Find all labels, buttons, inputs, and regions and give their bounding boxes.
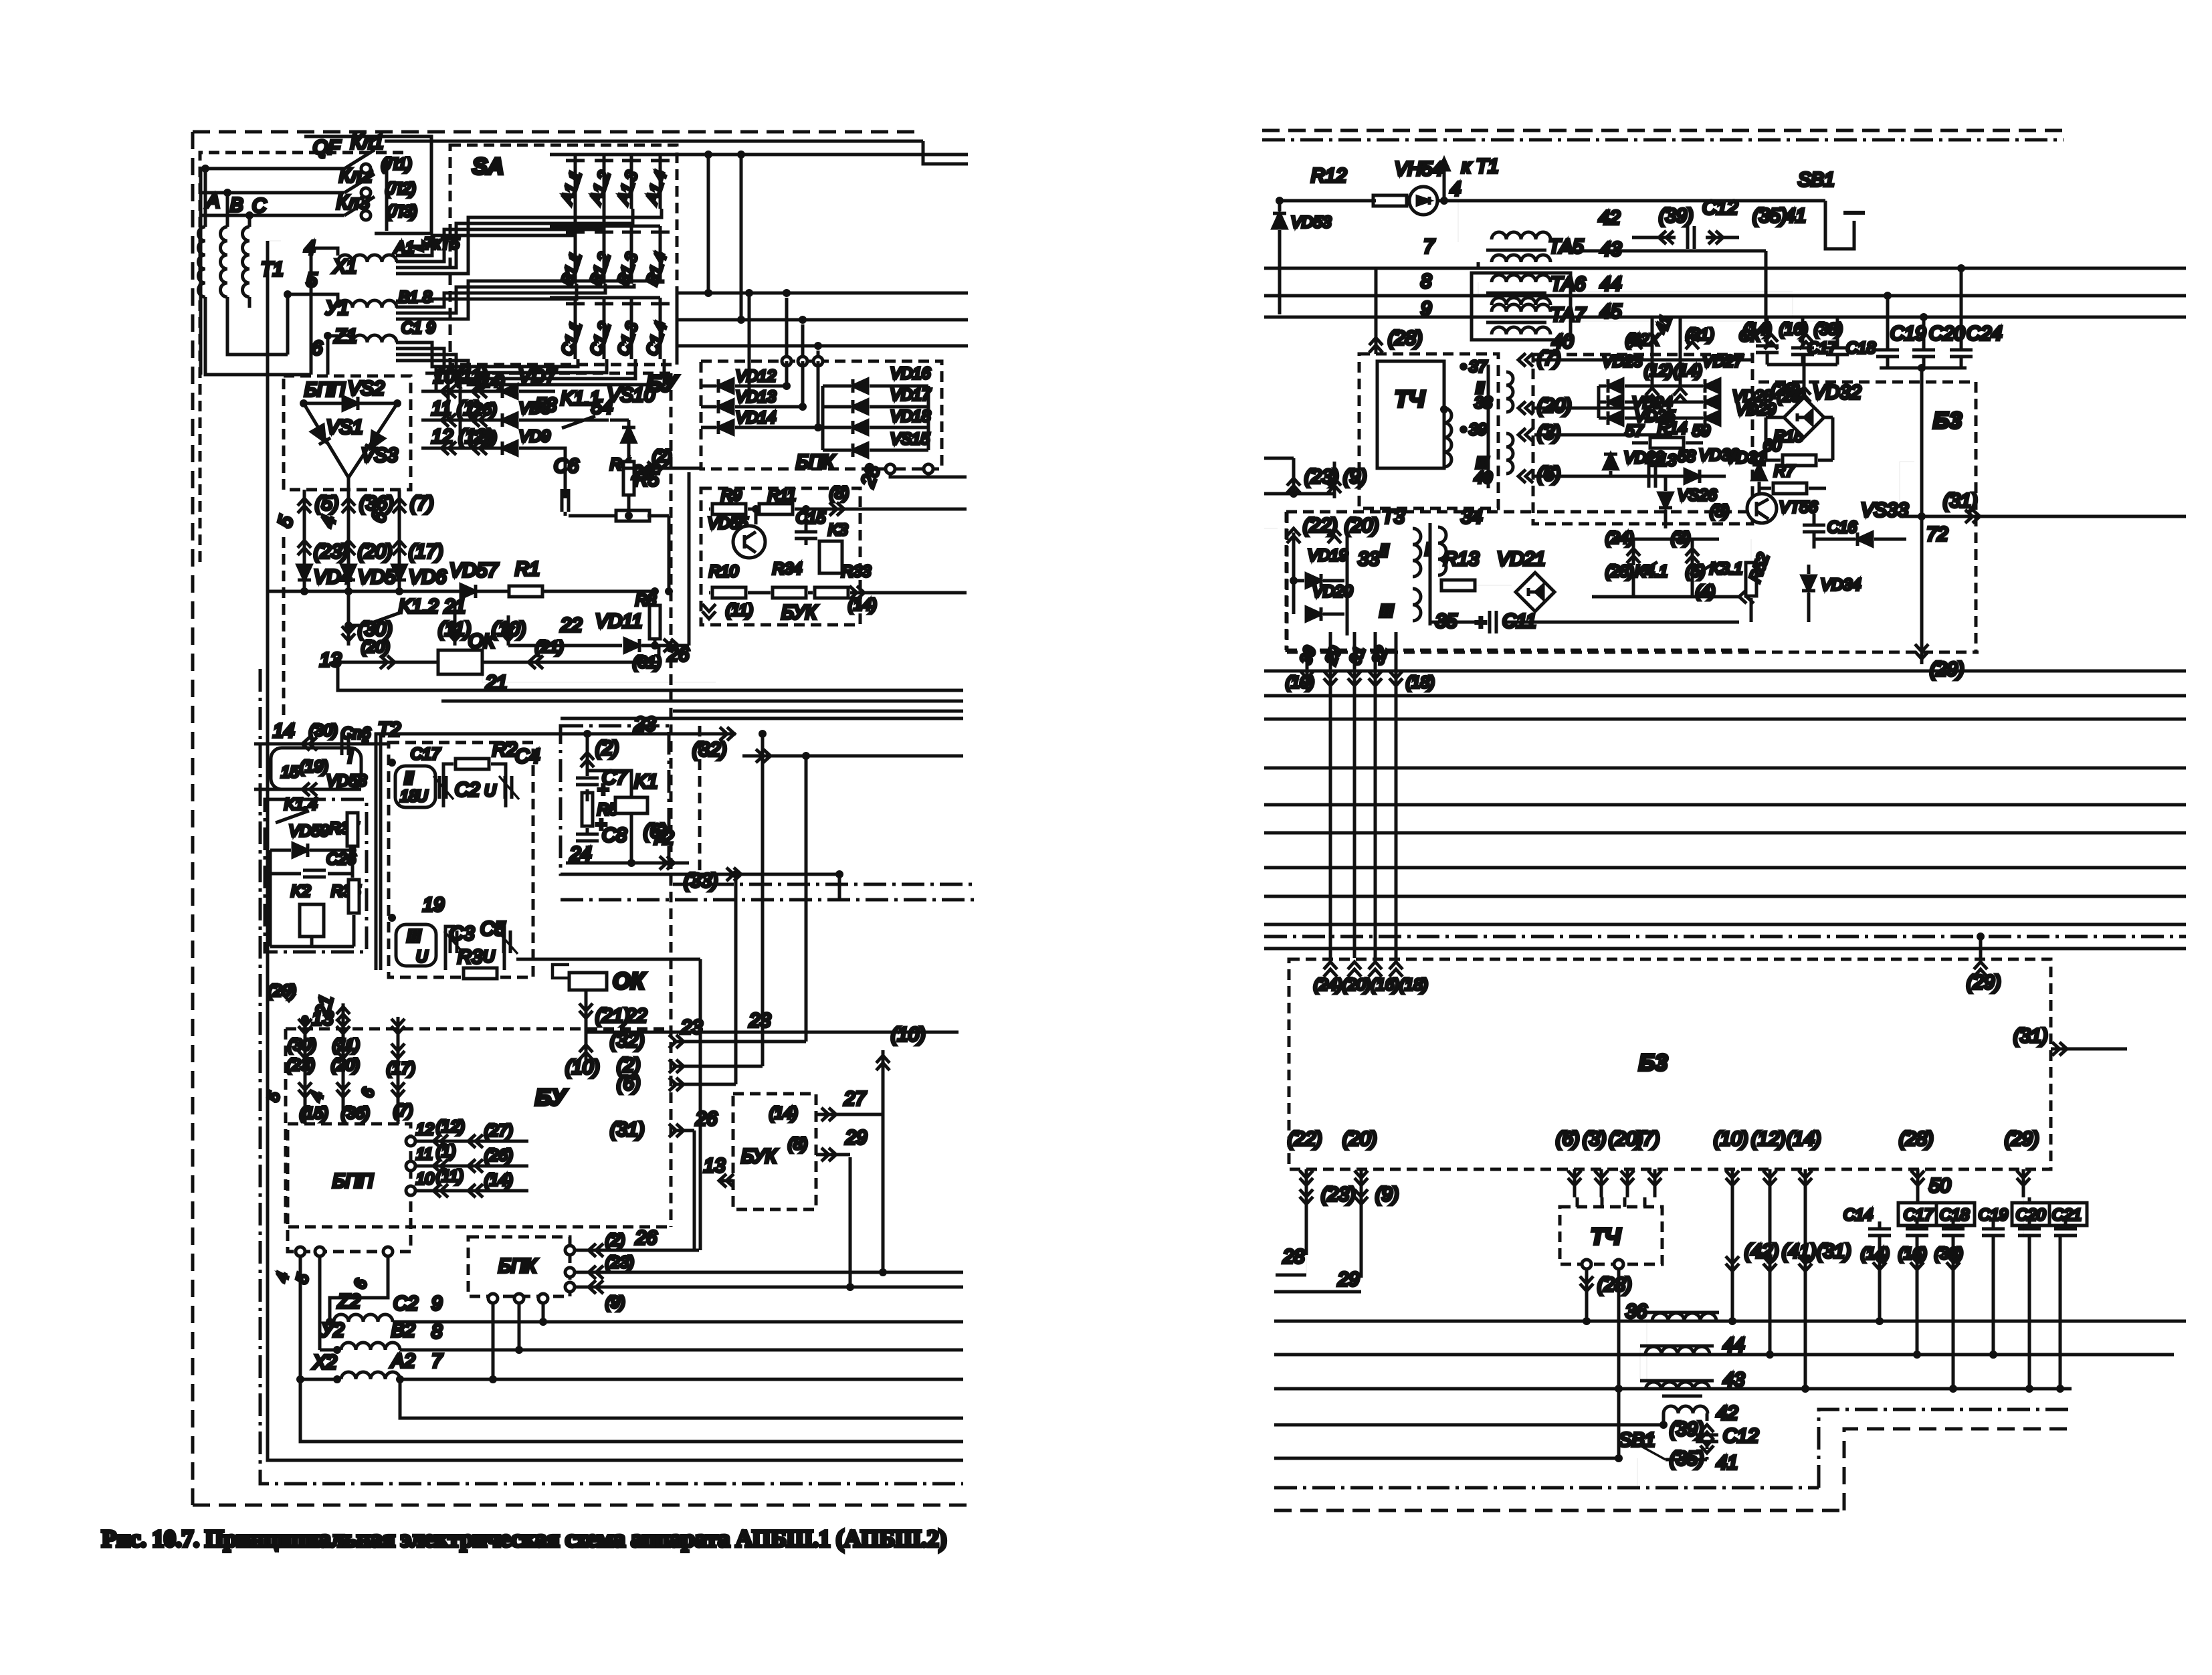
svg-text:(32): (32) (610, 1030, 645, 1052)
BUK wire 29 (816, 1153, 850, 1157)
svg-text:ОК: ОК (613, 969, 645, 994)
svg-text:(9): (9) (1375, 1184, 1399, 1205)
capacitor group C19 C20 C21 (2012, 1203, 2087, 1225)
svg-text:(Л3): (Л3) (387, 203, 417, 221)
svg-text:34: 34 (1461, 506, 1482, 528)
svg-text:(28): (28) (1899, 1128, 1934, 1150)
svg-text:(30): (30) (309, 722, 338, 740)
svg-text:SA: SA (472, 154, 504, 179)
svg-text:7: 7 (1423, 236, 1435, 258)
lower BPK dashed box (468, 1237, 570, 1296)
TA box (1472, 273, 1571, 340)
svg-text:VD34: VD34 (1821, 576, 1861, 594)
optocoupler OK lower (569, 973, 607, 990)
svg-text:VD59: VD59 (289, 822, 329, 840)
wire 42 to SB1 (1437, 199, 1825, 203)
svg-text:Т3: Т3 (1382, 506, 1405, 528)
upper BU dashed box (282, 537, 286, 718)
TA output wires 43 44 45 (1559, 250, 1766, 253)
svg-text:(10): (10) (565, 1057, 600, 1078)
diode VD17 (853, 400, 868, 413)
B3 top pins (1324, 962, 1337, 977)
svg-text:X2: X2 (312, 1352, 336, 1373)
svg-text:R7: R7 (1774, 462, 1795, 480)
diode VD53 (1273, 213, 1286, 228)
exit 31 72 (1900, 515, 2186, 518)
svg-text:к Т1: к Т1 (1462, 156, 1499, 177)
svg-text:45: 45 (1600, 301, 1622, 322)
wires 23 9 28 29 (1300, 1189, 1313, 1204)
lower transformer winding 36-44 (1652, 1313, 1716, 1321)
svg-text:(39): (39) (1670, 1419, 1704, 1440)
svg-text:(31): (31) (610, 1119, 645, 1141)
svg-text:(33): (33) (684, 870, 718, 892)
svg-text:(2): (2) (595, 738, 619, 759)
svg-text:ТА7: ТА7 (1550, 304, 1587, 326)
lower BPP dashed box (288, 1124, 411, 1252)
svg-text:(2): (2) (605, 1231, 625, 1250)
svg-text:Z2: Z2 (337, 1291, 361, 1312)
svg-text:VD13: VD13 (736, 388, 777, 406)
wire above OK lower (516, 958, 700, 961)
svg-text:12: 12 (416, 1120, 434, 1139)
frequency block TCh upper (1359, 354, 1498, 508)
svg-text:(31): (31) (1817, 1241, 1851, 1262)
right page top dashed border (1262, 129, 2064, 132)
svg-text:С19: С19 (1890, 323, 1926, 344)
svg-text:II: II (1379, 540, 1389, 561)
svg-text:(31): (31) (1943, 490, 1978, 512)
box around C2 R2 C4 (443, 764, 454, 807)
svg-text:(36): (36) (341, 1104, 370, 1122)
svg-text:15: 15 (281, 763, 299, 781)
svg-text:ТЧ: ТЧ (1591, 1224, 1621, 1250)
svg-text:(11): (11) (726, 601, 753, 619)
svg-text:С12: С12 (1702, 197, 1738, 219)
columns 42 41 31 from B3 pins (1731, 1197, 1734, 1321)
svg-text:В1 8: В1 8 (399, 288, 432, 306)
arrows 23 9 22 20 (1287, 478, 1300, 493)
diode VD31sym resistor R7 (1752, 465, 1766, 480)
svg-text:С21: С21 (2052, 1206, 2082, 1224)
winding II of T2 (395, 766, 435, 807)
svg-text:VS2: VS2 (348, 378, 385, 399)
pins on BPK top (782, 357, 791, 366)
upper BUK dashed box (701, 488, 860, 625)
svg-text:С20: С20 (2016, 1206, 2046, 1224)
svg-text:VD21: VD21 (1497, 549, 1546, 570)
svg-text:С17: С17 (1904, 1206, 1934, 1224)
T2 dashed box (389, 743, 533, 977)
dash-dot box around K2 section (265, 799, 367, 952)
svg-text:БПК: БПК (796, 452, 835, 473)
lower BUK dashed box (733, 1094, 816, 1209)
svg-text:(12): (12) (1751, 1128, 1786, 1150)
svg-text:10: 10 (416, 1170, 434, 1188)
switch bank B1.1-B1.4 (550, 225, 660, 228)
svg-text:41: 41 (1716, 1452, 1738, 1474)
B3 29 wire down (2023, 1197, 2024, 1238)
svg-text:R3: R3 (458, 947, 482, 968)
svg-text:(7): (7) (393, 1102, 413, 1120)
svg-text:R12: R12 (1311, 165, 1346, 187)
svg-text:Б3: Б3 (1933, 408, 1962, 433)
T2 core (375, 732, 378, 970)
svg-text:U: U (416, 948, 428, 966)
svg-text:28: 28 (1282, 1246, 1304, 1268)
svg-text:U: U (483, 948, 495, 966)
svg-text:(14): (14) (484, 1171, 513, 1189)
svg-text:(12): (12) (436, 1118, 465, 1136)
svg-text:R1: R1 (515, 559, 540, 580)
svg-text:(22): (22) (1288, 1128, 1322, 1150)
terminal box QF (304, 136, 431, 233)
svg-text:III: III (407, 926, 421, 946)
svg-text:K1.2: K1.2 (399, 596, 439, 617)
winding I of T2 with VD58 (271, 748, 361, 789)
svg-text:T1: T1 (261, 259, 284, 280)
dash-dot frame bottom (260, 669, 963, 1484)
arrows 5 36 7 into BPP (303, 490, 306, 535)
svg-text:(17): (17) (387, 1060, 415, 1078)
svg-text:50: 50 (1929, 1175, 1950, 1197)
svg-text:(20): (20) (358, 541, 393, 563)
svg-text:19: 19 (423, 894, 444, 916)
BPP right pins (406, 1137, 415, 1146)
diode VD16 (853, 379, 868, 393)
svg-text:(29): (29) (1967, 972, 2001, 993)
svg-text:(26): (26) (468, 401, 497, 419)
svg-text:(23): (23) (1321, 1184, 1356, 1205)
svg-text:(18): (18) (1406, 674, 1435, 692)
svg-text:VS10: VS10 (607, 385, 655, 406)
svg-text:С18: С18 (1846, 339, 1876, 357)
SA feed step verticals (707, 155, 710, 293)
wire 28 exit (886, 464, 895, 474)
svg-text:(14): (14) (769, 1104, 798, 1122)
svg-text:(8): (8) (788, 1135, 807, 1153)
left page top inner solid border (385, 140, 923, 143)
svg-text:(3): (3) (1537, 422, 1561, 444)
winding 42 with SB1 C12 (1664, 1406, 1708, 1413)
dash-dot frame around K1 block (561, 726, 669, 874)
diode VD18 (853, 421, 868, 434)
svg-text:9: 9 (431, 1293, 442, 1314)
svg-text:42: 42 (1599, 207, 1620, 229)
svg-text:VD17: VD17 (890, 386, 932, 404)
diode VD12 (718, 379, 733, 393)
svg-text:8: 8 (431, 1321, 442, 1343)
dash-dot horizontals mid (673, 883, 975, 886)
svg-text:ТЧ: ТЧ (1395, 387, 1425, 412)
svg-text:(20): (20) (331, 1056, 360, 1074)
svg-text:С4: С4 (515, 746, 540, 767)
winding stack left verticals (1646, 1321, 1647, 1381)
svg-text:VS1: VS1 (326, 417, 363, 438)
svg-text:(26): (26) (484, 1147, 513, 1165)
svg-text:(10): (10) (492, 619, 526, 640)
svg-text:(20): (20) (1344, 515, 1379, 536)
svg-text:VD5: VD5 (358, 567, 396, 588)
svg-text:R9: R9 (721, 486, 742, 504)
exit 29 bottom (1920, 516, 1924, 664)
svg-text:(20): (20) (361, 638, 390, 656)
svg-text:(7): (7) (1636, 1128, 1660, 1150)
svg-text:VS26: VS26 (1678, 486, 1717, 504)
svg-text:57: 57 (1625, 422, 1644, 440)
BPK bottom pins (488, 1294, 498, 1303)
svg-text:7кТ5: 7кТ5 (424, 235, 460, 253)
svg-text:С12: С12 (1723, 1425, 1758, 1447)
svg-text:59: 59 (1692, 422, 1710, 440)
svg-text:III: III (1379, 601, 1394, 621)
svg-text:(29): (29) (2005, 1128, 2039, 1150)
svg-text:B: B (230, 195, 243, 216)
resistor R2 (456, 759, 489, 769)
svg-text:С17: С17 (411, 745, 441, 763)
svg-text:R2: R2 (492, 739, 517, 761)
svg-text:(22): (22) (1303, 515, 1338, 536)
svg-text:(24)(20)(16)(18): (24)(20)(16)(18) (1314, 976, 1428, 994)
svg-text:VS15: VS15 (890, 430, 930, 448)
rectifier block BPP dashed box (284, 376, 411, 490)
svg-text:VD19: VD19 (1308, 547, 1348, 565)
svg-text:(6): (6) (1556, 1128, 1579, 1150)
diode VD22 C13 58 VD30 VD31 (1604, 454, 1617, 469)
svg-text:(27): (27) (484, 1122, 513, 1140)
svg-text:(3): (3) (1583, 1128, 1606, 1150)
svg-text:(23): (23) (605, 1254, 634, 1272)
svg-text:U: U (416, 787, 428, 805)
svg-text:БУК: БУК (741, 1146, 778, 1167)
svg-text:8: 8 (1421, 271, 1431, 292)
svg-text:БПК: БПК (498, 1256, 538, 1277)
variable capacitor C3 (450, 930, 457, 953)
left page outer dashed border (193, 130, 923, 134)
svg-text:(6): (6) (617, 1073, 640, 1094)
lower transformer winding 43 (1645, 1382, 1710, 1390)
svg-text:(15): (15) (300, 1104, 328, 1122)
svg-text:II: II (404, 768, 413, 788)
dashed border step bottom right (1844, 1429, 2070, 1510)
vertical wire with 10 chevron (882, 1050, 885, 1272)
feed wires TA (1457, 201, 1459, 242)
svg-text:(32): (32) (692, 739, 727, 761)
wire 8 exit (829, 502, 844, 516)
right page bus lines upper (1264, 267, 2186, 270)
svg-text:K2: K2 (291, 882, 310, 900)
svg-text:(10): (10) (891, 1024, 926, 1046)
selector switch SA dashed box (450, 145, 677, 365)
transformer T3 dashed box (1286, 510, 1752, 514)
vertical connections lower right (1585, 1320, 1589, 1323)
svg-text:(35): (35) (1752, 205, 1787, 227)
svg-text:VD6: VD6 (409, 567, 447, 588)
svg-text:23: 23 (748, 1010, 771, 1031)
svg-text:С2: С2 (455, 779, 480, 801)
dash-dot border step bottom right (1819, 1409, 2068, 1488)
svg-text:С18: С18 (1940, 1206, 1970, 1224)
diode VD13 (718, 400, 733, 413)
wire bundle staircase B (396, 284, 577, 301)
svg-text:С1 9: С1 9 (401, 319, 435, 337)
svg-text:13: 13 (704, 1155, 725, 1177)
capacitor group C14 C17 C18 lower (1898, 1203, 1975, 1225)
svg-text:(14): (14) (1674, 362, 1702, 380)
svg-text:А2: А2 (390, 1351, 415, 1372)
svg-text:26: 26 (635, 1227, 658, 1249)
svg-text:VD12: VD12 (736, 367, 776, 385)
svg-text:VH54: VH54 (1395, 159, 1443, 180)
frequency block TCh lower (1560, 1207, 1662, 1264)
svg-text:4: 4 (1450, 179, 1461, 200)
TCh pins 7 20 3 6 (1518, 353, 1533, 367)
svg-text:VT56: VT56 (1779, 498, 1818, 516)
svg-text:7: 7 (431, 1351, 443, 1372)
winding output wires lower right (1719, 1320, 1880, 1323)
wire 23 row lower (586, 1031, 959, 1034)
long left vertical wire to bus (268, 241, 963, 1460)
B3 bottom pins (1300, 1171, 1313, 1185)
svg-text:(30): (30) (358, 619, 393, 640)
svg-text:С2: С2 (393, 1293, 418, 1314)
wires 30 11 10 down arrows (347, 625, 350, 646)
svg-text:С15: С15 (796, 509, 826, 527)
svg-text:R33: R33 (841, 563, 872, 581)
svg-text:(17): (17) (409, 541, 443, 563)
svg-text:(27): (27) (468, 429, 497, 447)
svg-text:29: 29 (845, 1127, 867, 1149)
svg-text:(12): (12) (1644, 362, 1673, 380)
transistor VT56 (1747, 494, 1777, 523)
svg-text:5: 5 (306, 270, 318, 291)
svg-text:R34: R34 (773, 560, 802, 578)
svg-text:(28): (28) (1605, 563, 1634, 581)
svg-text:(10): (10) (1714, 1128, 1748, 1150)
svg-text:R11: R11 (768, 486, 796, 504)
svg-text:(19): (19) (300, 758, 328, 776)
right page mid bus lines (1264, 670, 2186, 673)
svg-text:(9): (9) (605, 1294, 625, 1312)
wire A2 down to bus (396, 1375, 404, 1383)
svg-text:ОК: ОК (468, 631, 496, 652)
svg-text:(31): (31) (2013, 1025, 2048, 1047)
svg-text:БПП: БПП (304, 379, 346, 401)
svg-text:VD32: VD32 (1813, 382, 1862, 403)
svg-text:VD16: VD16 (890, 365, 931, 383)
svg-text:(11): (11) (436, 1167, 464, 1185)
svg-text:22: 22 (560, 615, 582, 636)
svg-text:(20): (20) (1537, 395, 1572, 417)
svg-text:58: 58 (1678, 448, 1696, 466)
svg-text:(21): (21) (595, 1005, 630, 1027)
diodes VD4 VD5 VD6 (303, 535, 306, 591)
thyristor VS15 (853, 444, 868, 457)
diode VD14 (718, 421, 733, 434)
svg-text:С20: С20 (1929, 323, 1965, 344)
svg-text:26: 26 (667, 644, 690, 666)
svg-text:42: 42 (1716, 1403, 1738, 1424)
svg-text:26: 26 (631, 462, 654, 484)
svg-text:R13: R13 (1443, 549, 1479, 570)
svg-text:(23): (23) (286, 1056, 315, 1074)
capacitor C7 (586, 734, 589, 776)
svg-text:(11): (11) (438, 619, 471, 640)
svg-text:VD9: VD9 (519, 427, 550, 446)
svg-text:(20): (20) (1342, 1128, 1377, 1150)
svg-text:С24: С24 (1967, 323, 2002, 344)
svg-text:K3: K3 (828, 521, 848, 539)
svg-text:14: 14 (273, 720, 294, 742)
svg-text:Б3: Б3 (1639, 1050, 1668, 1076)
svg-text:(10): (10) (1286, 674, 1314, 692)
svg-text:(14): (14) (1787, 1128, 1821, 1150)
svg-text:R10: R10 (709, 563, 739, 581)
wire bundle staircase C (396, 342, 578, 367)
svg-text:C: C (252, 195, 267, 217)
svg-text:(28): (28) (1388, 328, 1423, 349)
corner wire X2 to bus (300, 1379, 963, 1442)
wire 23 loop lower (338, 662, 441, 690)
svg-text:72: 72 (1926, 524, 1948, 545)
svg-text:+: + (597, 779, 609, 801)
svg-text:VD27: VD27 (1702, 353, 1744, 371)
svg-text:(6): (6) (1537, 464, 1561, 485)
svg-text:44: 44 (1600, 274, 1621, 295)
svg-text:VD7: VD7 (518, 366, 557, 387)
TCh winding (1444, 408, 1451, 467)
svg-text:БУК: БУК (781, 602, 818, 623)
inner cluster dashed box (1533, 355, 1752, 524)
svg-text:VD58: VD58 (326, 772, 367, 790)
svg-text:QF: QF (313, 137, 342, 159)
right page lower bus lines (1274, 1320, 2186, 1323)
B3 exit 31 right (2052, 1042, 2067, 1056)
resistor R52 (1746, 563, 1756, 596)
wire to T1 arrow (1443, 167, 1446, 201)
svg-text:53: 53 (535, 395, 557, 416)
svg-text:(7): (7) (410, 493, 433, 514)
upper BPK dashed box (701, 361, 942, 469)
svg-text:11: 11 (416, 1145, 433, 1163)
svg-text:VD53: VD53 (1291, 213, 1332, 231)
svg-text:33: 33 (1358, 549, 1379, 570)
svg-text:С8: С8 (602, 825, 627, 846)
svg-text:БУ: БУ (535, 1085, 568, 1110)
svg-text:ТА5: ТА5 (1548, 236, 1584, 258)
svg-text:U: U (484, 782, 496, 800)
svg-text:6: 6 (312, 338, 323, 359)
svg-text:ТА6: ТА6 (1550, 274, 1586, 295)
svg-text:Рис. 10.7. Принципиальная эле: Рис. 10.7. Принципиальная электрическая … (102, 1525, 946, 1552)
svg-text:(8): (8) (829, 484, 849, 502)
svg-text:K1: K1 (634, 771, 658, 793)
inner dashed box around T1 QF (200, 153, 409, 562)
svg-text:29: 29 (1337, 1269, 1359, 1290)
svg-text:(Л2): (Л2) (385, 180, 416, 198)
svg-text:С14: С14 (1843, 1206, 1873, 1224)
diode VD34 (1802, 576, 1815, 591)
lower transformer winding 44 (1645, 1347, 1710, 1355)
svg-text:VD18: VD18 (890, 407, 931, 425)
svg-text:36: 36 (1625, 1301, 1647, 1322)
B3 lower big dashed box (1289, 959, 2051, 1169)
switch bank A1.1-A1.4 (550, 153, 968, 157)
svg-text:В2: В2 (391, 1320, 415, 1341)
svg-text:(5): (5) (315, 493, 338, 514)
svg-text:(21): (21) (535, 638, 564, 656)
wire SB1 bottom vertical (1637, 1458, 1638, 1488)
